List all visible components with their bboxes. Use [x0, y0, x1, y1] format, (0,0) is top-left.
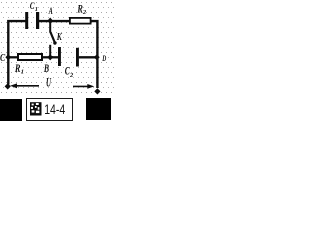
switch K blade — [50, 32, 55, 44]
svg-text:D: D — [102, 53, 107, 63]
label R1 — [14, 61, 24, 76]
capacitor C2 right plate — [76, 48, 79, 67]
capacitor C1 right plate — [36, 12, 39, 29]
svg-text:1: 1 — [35, 6, 38, 13]
label R2 — [77, 4, 87, 17]
wire: B to C2 — [52, 56, 59, 58]
caption right black block — [86, 98, 111, 120]
label C1 — [30, 2, 38, 13]
resistor R1 — [17, 53, 43, 61]
capacitor C1 left plate — [25, 12, 28, 29]
wire: R2 to top-right corner and right rail — [91, 21, 97, 88]
node B junction dot — [47, 54, 53, 60]
label C2 — [65, 63, 74, 79]
wire: C1 to A to R2 — [39, 20, 70, 22]
svg-text:1: 1 — [21, 68, 24, 75]
node D junction dot — [94, 54, 100, 60]
resistor R2 — [69, 17, 92, 25]
node A junction dot — [47, 18, 53, 24]
caption glyph tu (figure) — [30, 102, 42, 115]
arrow U left — [10, 83, 39, 88]
caption left black block — [0, 99, 22, 121]
svg-text:14-4: 14-4 — [44, 102, 65, 118]
wire: C2 to D — [79, 56, 96, 58]
node C junction dot — [5, 54, 11, 60]
right terminal dot — [94, 88, 100, 94]
wire: top-left corner and left rail — [8, 21, 25, 84]
svg-text:B: B — [43, 63, 49, 75]
svg-text:C: C — [0, 53, 6, 64]
svg-text:R: R — [14, 61, 20, 75]
svg-text:A: A — [48, 6, 53, 17]
wire: switch to B — [49, 45, 51, 58]
svg-text:U: U — [46, 76, 52, 90]
wire: A down to switch — [49, 21, 51, 33]
caption box — [27, 99, 73, 121]
svg-text:2: 2 — [82, 9, 87, 16]
wire: R1 to B — [43, 56, 53, 58]
capacitor C2 left plate — [58, 47, 61, 66]
wire: C to R1 — [8, 56, 18, 58]
svg-text:K: K — [56, 32, 62, 43]
left terminal dot — [5, 83, 11, 89]
arrow U right — [73, 84, 94, 89]
